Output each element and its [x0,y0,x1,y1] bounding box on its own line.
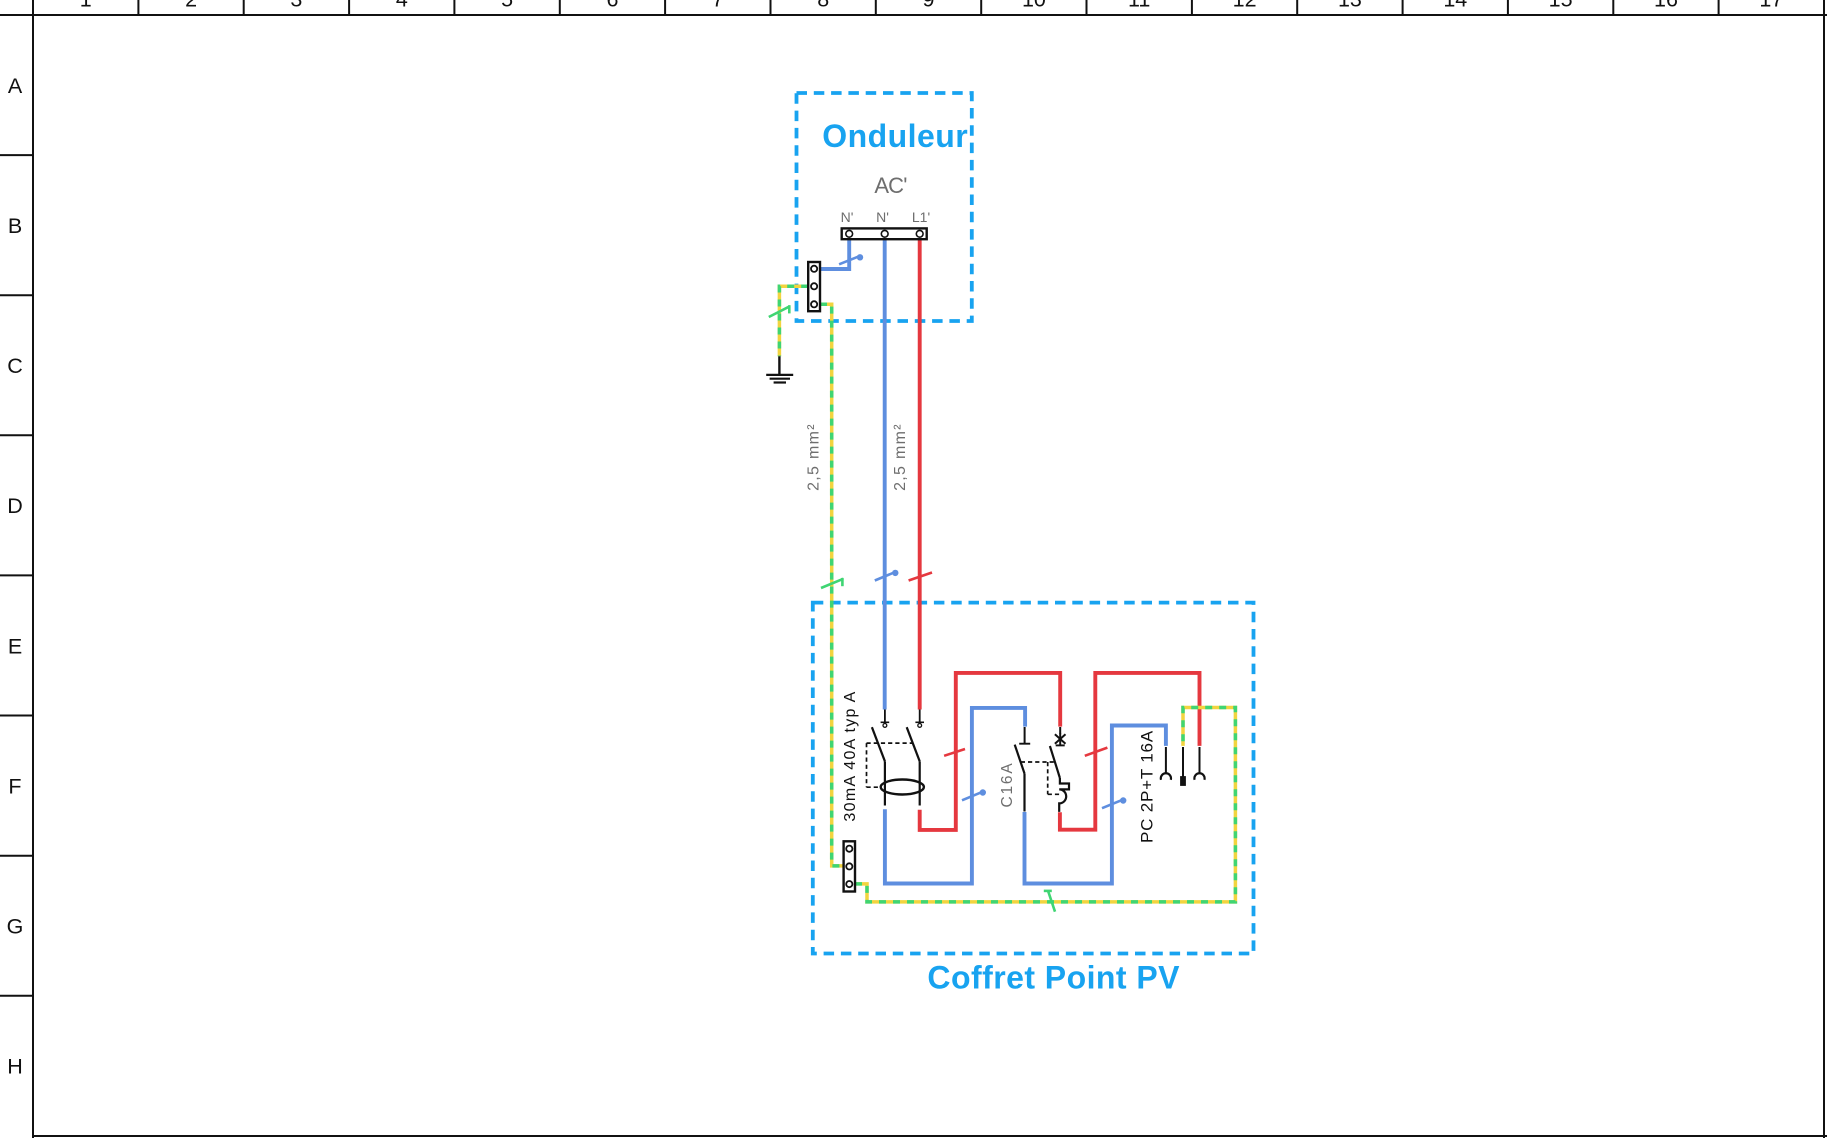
svg-text:C16A: C16A [999,762,1016,808]
svg-text:A: A [8,74,23,98]
svg-text:5: 5 [501,0,513,12]
conductor marker on wire L1 [909,573,932,581]
breaker C16A [1015,727,1069,812]
wire N C16A to socket (blue) [1025,726,1166,884]
connector block (Onduleur PE/N block) [808,262,820,311]
ground [766,356,793,382]
wire L1 RCD to C16A (red) [920,673,1060,830]
conductor marker on L1 RCD-C16A [944,749,965,756]
svg-text:B: B [8,214,22,238]
svg-text:2: 2 [185,0,197,12]
socket PC 2P+T 16A [1161,747,1205,786]
svg-text:16: 16 [1654,0,1678,12]
wire L1 C16A to socket (red) [1060,673,1200,830]
svg-text:6: 6 [607,0,619,12]
svg-text:10: 10 [1022,0,1046,12]
terminal block PE (Coffret) [844,841,855,891]
svg-text:AC': AC' [874,173,907,198]
conductor marker on N' jumper [839,254,863,264]
svg-text:7: 7 [712,0,724,12]
terminal strip AC' [841,173,931,239]
svg-text:13: 13 [1338,0,1362,12]
svg-text:PC 2P+T 16A: PC 2P+T 16A [1138,730,1157,843]
svg-text:C: C [7,354,23,378]
PE marker on wire PE1 [769,305,790,317]
svg-text:30mA 40A typ A: 30mA 40A typ A [842,690,859,821]
svg-text:Onduleur: Onduleur [822,118,968,154]
svg-text:17: 17 [1759,0,1783,12]
svg-text:H: H [7,1055,23,1079]
svg-text:E: E [8,634,22,658]
conductor marker on wire N [875,570,899,581]
wire N RCD to C16A (blue) [885,708,1025,884]
svg-text:Coffret Point PV: Coffret Point PV [927,960,1180,996]
svg-text:4: 4 [396,0,408,12]
svg-text:N': N' [841,209,854,225]
conductor marker on N C16A-socket [1102,797,1126,808]
enclosure Coffret Point PV [813,603,1254,996]
svg-text:F: F [8,774,21,798]
svg-text:N': N' [876,209,889,225]
svg-text:2,5 mm²: 2,5 mm² [806,423,823,491]
wire L1 (red) from AC' L1' terminal down to RCD [918,239,922,709]
svg-text:11: 11 [1128,0,1150,12]
PE marker on wire PE2 [821,578,843,588]
svg-text:9: 9 [923,0,935,12]
svg-text:G: G [7,915,24,939]
wire PE3 (green/yellow) terminal block to socket earth [855,708,1235,902]
svg-text:8: 8 [817,0,829,12]
svg-text:3: 3 [290,0,302,12]
conductor marker on L1 C16A-socket [1085,748,1108,756]
svg-text:D: D [7,494,23,518]
svg-text:15: 15 [1549,0,1573,12]
svg-text:14: 14 [1443,0,1467,12]
wire PE1 (green/yellow) connector block to ground [779,286,808,356]
svg-text:L1': L1' [912,209,930,225]
RCD 30mA 40A typ A [867,710,925,806]
wire PE2 (green/yellow) connector block down to Coffret terminal block [820,304,844,866]
PE marker on wire PE3 [1044,891,1055,912]
svg-text:2,5 mm²: 2,5 mm² [892,423,909,491]
enclosure Onduleur [797,93,972,321]
svg-text:1: 1 [80,0,92,12]
wire N' jumper (blue) from AC' terminal 1 to connector block [820,239,850,269]
svg-text:12: 12 [1233,0,1257,12]
wire N (blue) from AC' N' terminal 2 down to RCD [883,239,887,709]
conductor marker on N RCD-C16A [962,789,986,800]
